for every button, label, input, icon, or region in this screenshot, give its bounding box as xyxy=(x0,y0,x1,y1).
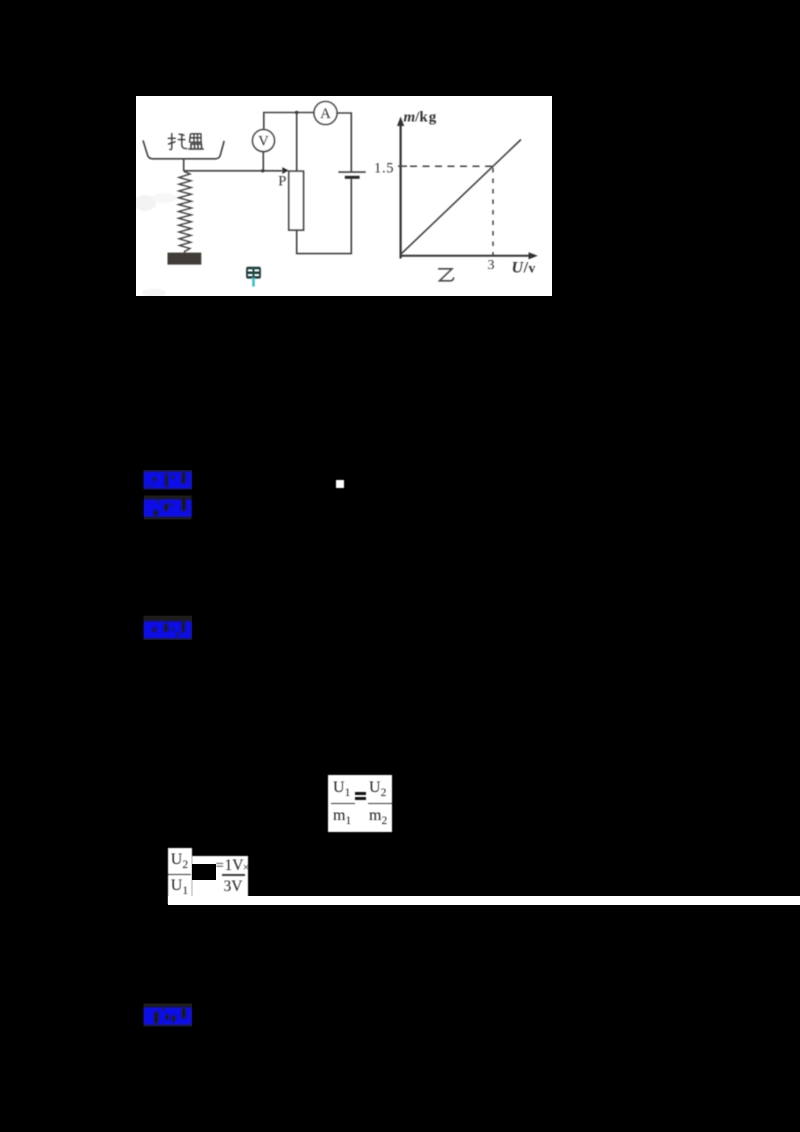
battery: long plate (+) xyxy=(338,171,365,173)
svg-text:V: V xyxy=(258,133,269,149)
formula 2 white strip xyxy=(168,896,800,905)
wire: spring-top node to slider P xyxy=(184,170,282,172)
wire: voltmeter upper lead to top rail xyxy=(264,113,314,130)
graph x-axis (U/V) xyxy=(401,255,530,257)
svg-text:3: 3 xyxy=(488,258,495,273)
node: junction under voltmeter xyxy=(261,169,264,172)
small white square xyxy=(336,480,344,488)
blue tag 1 【考点】 xyxy=(140,466,196,496)
wire: ammeter to battery positive xyxy=(337,113,351,172)
faint scan smudges xyxy=(134,193,176,297)
dashed guide at U=3 xyxy=(492,168,494,256)
blue tag 3 【解答】 xyxy=(140,615,196,645)
figure: circuit + graph image xyxy=(136,96,552,296)
rheostat R body xyxy=(289,171,304,230)
dashed guide at m=1.5 xyxy=(410,165,493,167)
svg-text:A: A xyxy=(320,106,331,122)
formula 1 : U1/m1 = U2/m2 xyxy=(328,775,392,832)
voltmeter V xyxy=(253,130,275,152)
wire: top junction down to rheostat xyxy=(296,113,298,172)
wire: battery negative to rheostat bottom xyxy=(297,179,352,254)
graph y-axis (m/kg) xyxy=(400,124,402,259)
rheostat slider arrow P xyxy=(282,167,288,174)
svg-text:U/v: U/v xyxy=(512,260,536,277)
formula 2 right: =1V/3V xyxy=(192,856,248,897)
node: top rail junction xyxy=(295,111,298,114)
figure texts xyxy=(258,106,535,276)
battery: short thick plate (-) xyxy=(345,176,360,179)
label 甲 (circuit) xyxy=(247,268,260,287)
tick at m=1.5 xyxy=(398,165,407,167)
formula 2 left: U2/U1 xyxy=(168,848,192,904)
weight block (fixed mass) xyxy=(168,253,202,265)
svg-text:m/kg: m/kg xyxy=(404,110,437,126)
spring (coil under tray) xyxy=(179,171,192,253)
wire: voltmeter lower lead xyxy=(262,152,264,171)
wire: tray to spring top node xyxy=(183,159,185,171)
blue tag 2 【分析】 xyxy=(140,493,196,523)
tray (托盘 pan symbol) xyxy=(143,141,224,159)
graph line m vs U xyxy=(400,140,521,255)
blue tag 4 【点评】 xyxy=(140,1001,196,1031)
ammeter A xyxy=(314,102,337,125)
label 托盘 on tray xyxy=(168,133,204,150)
svg-text:1.5: 1.5 xyxy=(374,160,394,176)
black patch over formula 2 xyxy=(192,864,216,880)
svg-text:P: P xyxy=(278,174,286,190)
label 乙 (graph) xyxy=(438,269,454,281)
